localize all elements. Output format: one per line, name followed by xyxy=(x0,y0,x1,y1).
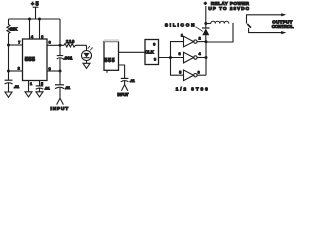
inverter U4c xyxy=(179,70,199,81)
wire bus inv2 to inv3 xyxy=(205,58,207,76)
wire CLK output xyxy=(159,57,184,59)
wire pin8 drop xyxy=(39,19,41,39)
wire U2 output to CLK xyxy=(119,51,146,53)
capacitor C4 .01 xyxy=(36,86,51,91)
relay contact lower lead xyxy=(249,28,287,34)
inverter U4b xyxy=(179,52,201,63)
svg-text:+: + xyxy=(204,1,207,6)
OUTPUT CONTROL label xyxy=(272,19,294,29)
wire pin3 xyxy=(47,70,60,72)
node junction rail-right pin8 wire xyxy=(38,18,41,21)
wire right line upper xyxy=(59,19,61,55)
node +5 supply terminal xyxy=(31,1,39,19)
svg-text:.01: .01 xyxy=(45,86,51,91)
LED D1 indicator xyxy=(82,46,93,61)
svg-text:.01: .01 xyxy=(130,79,135,83)
svg-text:1: 1 xyxy=(30,82,32,86)
relay coil K1 xyxy=(206,21,233,42)
node junction inv2 output xyxy=(205,56,208,59)
capacitor C1 .01 xyxy=(5,80,20,92)
svg-text:6: 6 xyxy=(49,40,51,44)
wire +5 rail xyxy=(9,18,61,20)
svg-text:2: 2 xyxy=(18,67,20,71)
clock divider U3 CLK xyxy=(145,40,159,65)
svg-text:4: 4 xyxy=(199,52,201,56)
relay contact points xyxy=(247,24,251,28)
node junction left line pin2 xyxy=(7,70,10,73)
wire riser to inverter 1 xyxy=(171,42,184,58)
wire bus inv1 to inv2 xyxy=(205,42,207,58)
svg-text:.001: .001 xyxy=(63,55,73,60)
svg-text:8: 8 xyxy=(154,58,156,62)
wire pin7 xyxy=(9,44,23,46)
svg-text:UP TO 28VDC: UP TO 28VDC xyxy=(208,6,249,11)
node junction inverter input xyxy=(169,56,172,59)
svg-text:9: 9 xyxy=(153,42,155,46)
svg-text:10K: 10K xyxy=(10,27,18,32)
relay contact upper lead xyxy=(247,13,287,23)
wire input line down xyxy=(59,71,61,85)
diode D2 silicon flyback xyxy=(202,24,210,43)
input arrow 2 xyxy=(121,81,127,91)
wire inverter3 output xyxy=(197,74,206,76)
svg-text:INPUT: INPUT xyxy=(117,92,128,97)
ground LED xyxy=(83,61,90,69)
svg-text:555: 555 xyxy=(105,58,115,64)
ground pin5 xyxy=(36,88,43,97)
svg-text:5: 5 xyxy=(179,71,181,75)
pointer silicon to diode xyxy=(196,27,204,32)
inverter U4a xyxy=(181,33,201,47)
node junction supply coil diode xyxy=(204,22,207,25)
input arrow 1 xyxy=(57,88,64,105)
ground stub U2 xyxy=(106,70,108,73)
node junction left line pin7 xyxy=(7,44,10,47)
svg-text:7: 7 xyxy=(18,41,20,45)
resistor R1 10K xyxy=(7,19,18,45)
node junction pin3 and input line xyxy=(59,70,62,73)
resistor R2 110 xyxy=(64,39,87,47)
node junction rail-left pin4 wire xyxy=(28,18,31,21)
wire left line lower xyxy=(8,71,10,80)
svg-text:.01: .01 xyxy=(14,84,20,89)
wire U2 trigger pin xyxy=(119,65,125,78)
node junction inv1 coil return xyxy=(205,40,208,43)
wire pin4 drop xyxy=(29,19,31,39)
wire relay supply xyxy=(205,6,207,24)
wire pin1 ground drop xyxy=(28,81,30,92)
svg-text:1/2 8T90: 1/2 8T90 xyxy=(176,87,208,92)
svg-text:INPUT: INPUT xyxy=(50,106,68,112)
capacitor C2 .001 xyxy=(57,55,73,60)
wire pin6 output to resistor xyxy=(47,44,64,46)
svg-text:3: 3 xyxy=(179,52,181,56)
op 555 timer U1 xyxy=(23,39,48,81)
op 555 timer U2 xyxy=(104,42,119,71)
faint print smudge above U2 xyxy=(104,39,119,41)
svg-text:.01: .01 xyxy=(65,85,71,90)
node junction pin6 wire and right line xyxy=(59,44,62,47)
wire right line lower xyxy=(59,58,61,71)
svg-text:1: 1 xyxy=(181,33,183,37)
svg-text:CLK: CLK xyxy=(145,50,155,55)
wire inverter2 output xyxy=(197,57,206,59)
wire inverter1 output xyxy=(197,41,206,43)
svg-text:6: 6 xyxy=(198,71,200,75)
svg-text:110: 110 xyxy=(66,39,75,44)
wire pin5 drop xyxy=(39,81,41,86)
wire pin2 xyxy=(9,70,23,72)
svg-text:SILICON: SILICON xyxy=(165,22,195,27)
svg-text:CONTROL: CONTROL xyxy=(272,24,294,29)
ground left xyxy=(5,92,12,97)
wire to LED xyxy=(86,45,88,50)
svg-text:555: 555 xyxy=(25,57,36,63)
wire riser to inverter 3 xyxy=(171,58,184,76)
capacitor C3 input .01 xyxy=(55,85,71,90)
svg-text:+5: +5 xyxy=(31,1,39,7)
svg-text:3: 3 xyxy=(49,67,51,71)
relay power label xyxy=(204,1,250,11)
svg-text:2: 2 xyxy=(199,37,201,41)
ground pin1 xyxy=(25,92,32,97)
wire left line mid xyxy=(8,45,10,71)
capacitor C5 input .01 xyxy=(121,78,135,83)
